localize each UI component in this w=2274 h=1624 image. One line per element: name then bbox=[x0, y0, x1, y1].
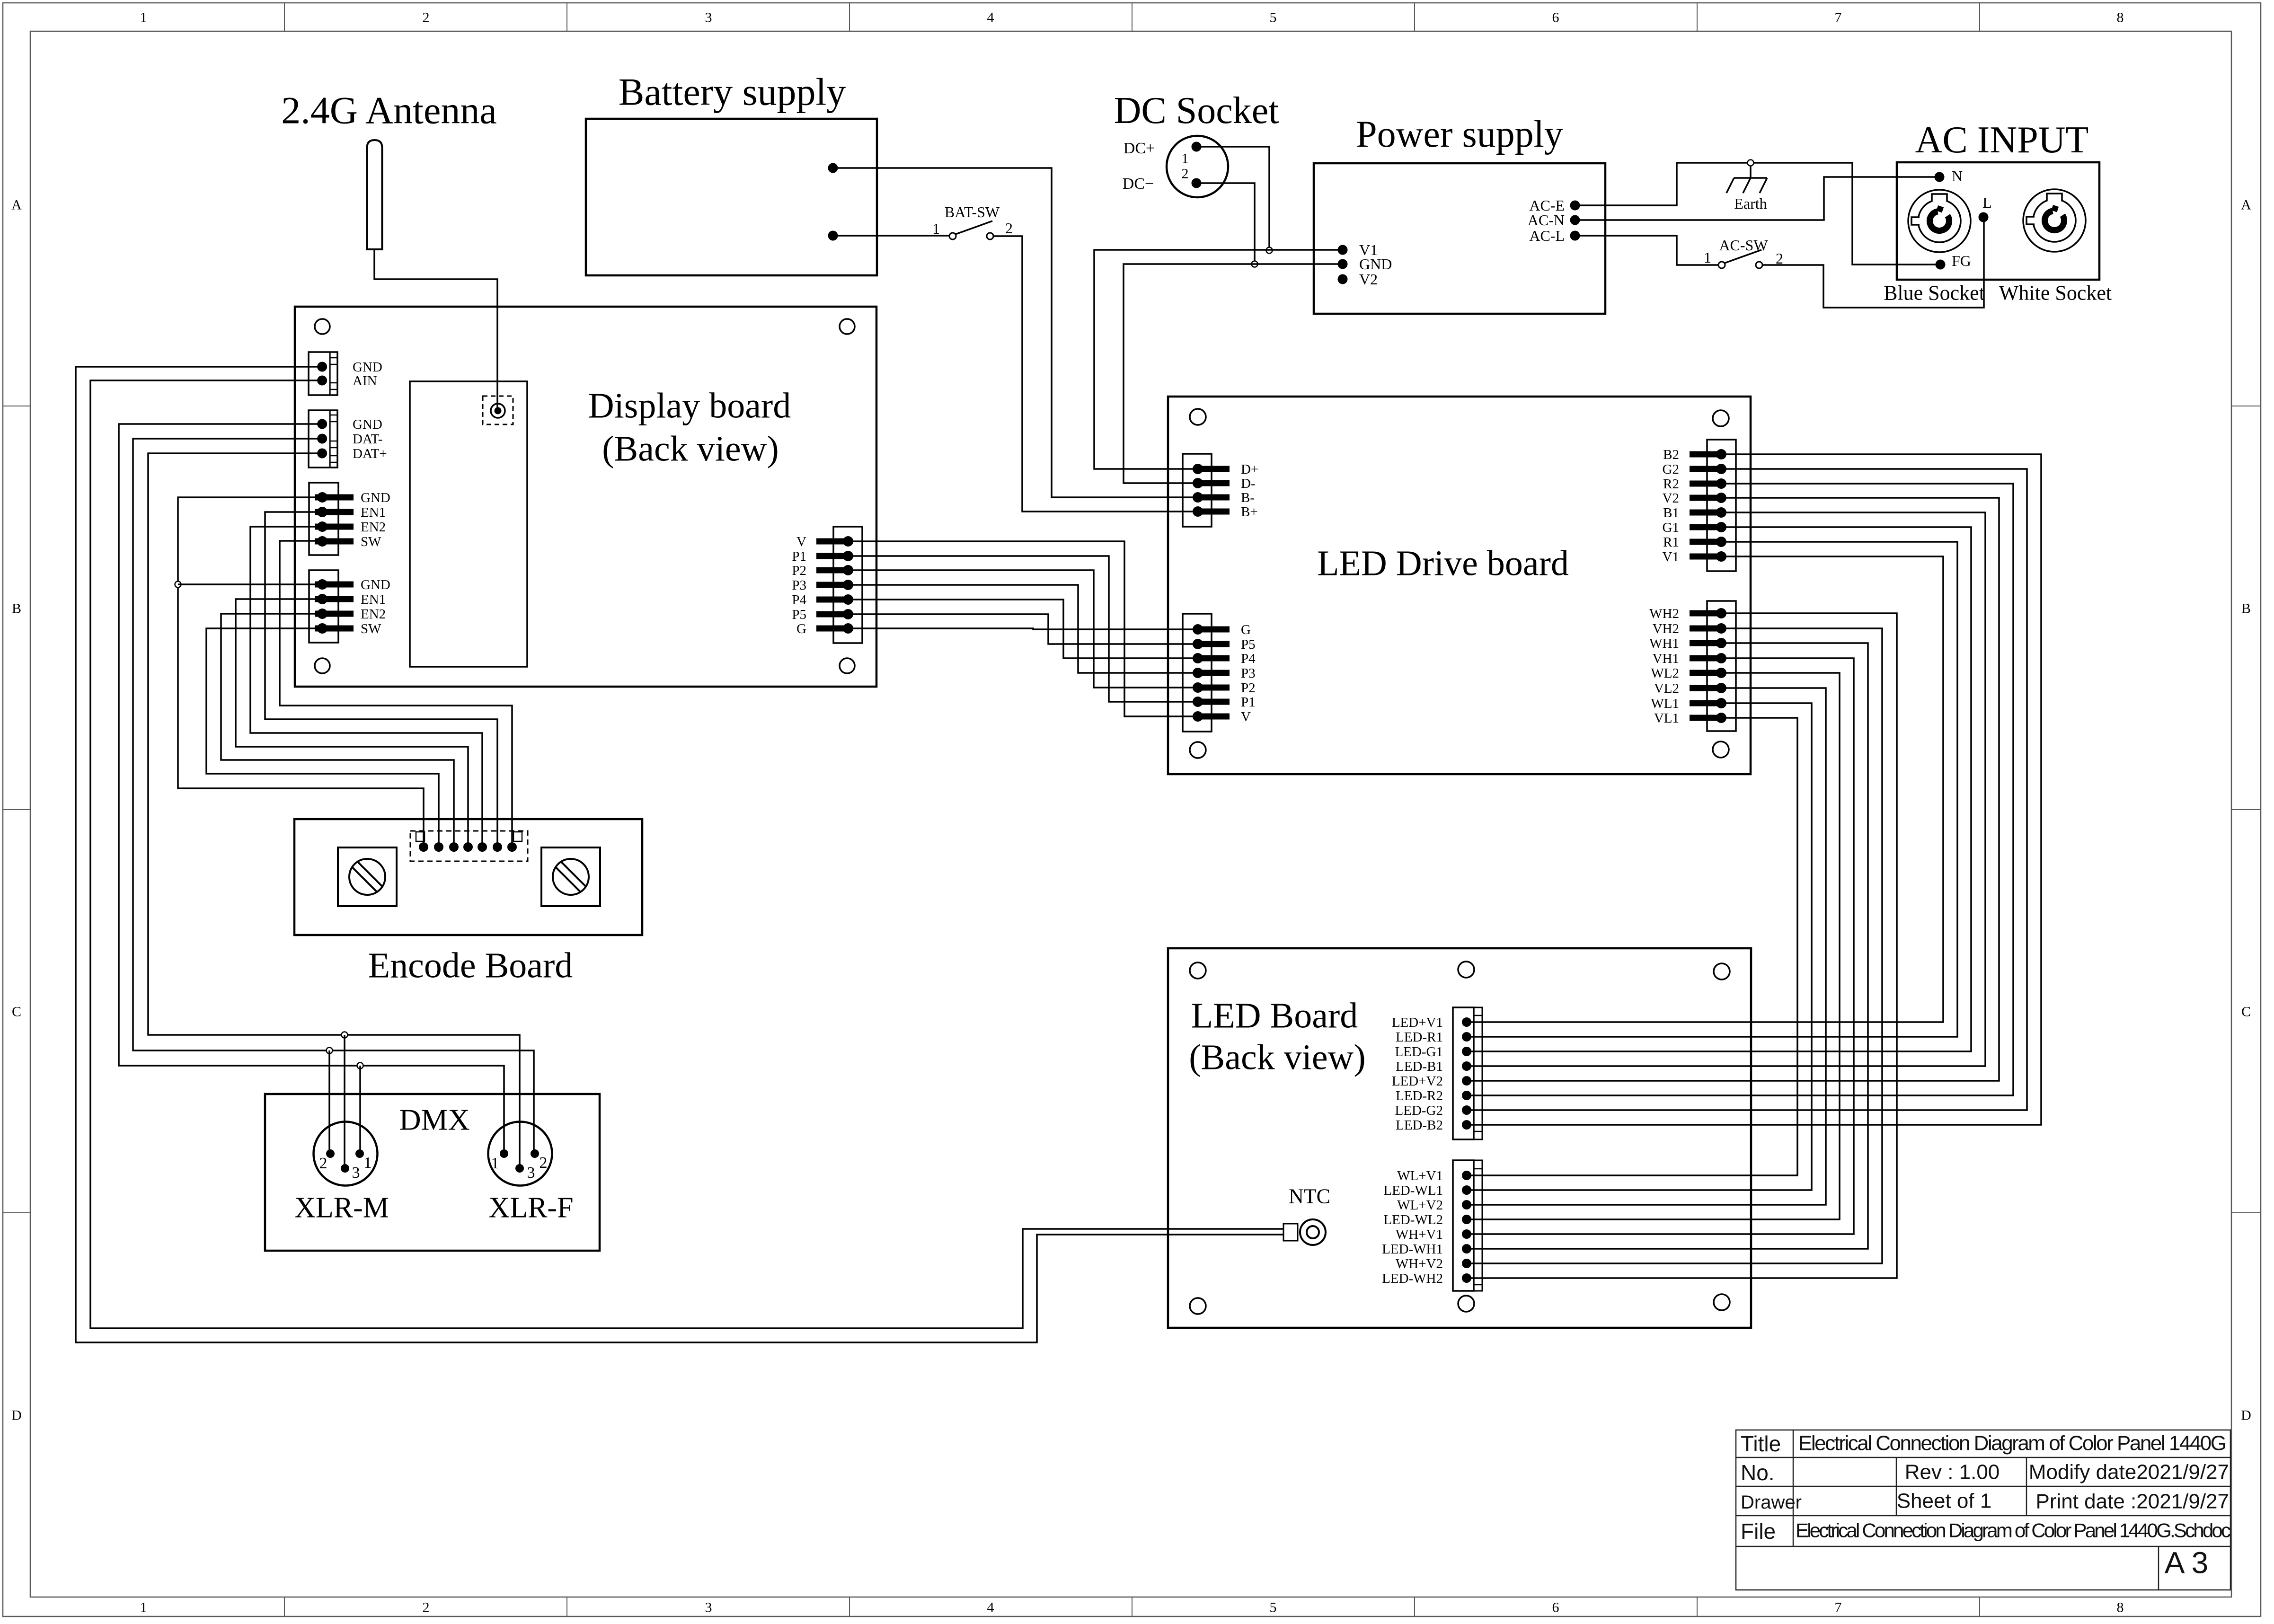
svg-text:DAT-: DAT- bbox=[353, 432, 382, 447]
antenna ANT1 bbox=[367, 140, 382, 249]
svg-text:Earth: Earth bbox=[1734, 195, 1767, 212]
svg-text:Display board: Display board bbox=[588, 386, 791, 426]
svg-text:6: 6 bbox=[1552, 1600, 1559, 1615]
svg-text:BAT-SW: BAT-SW bbox=[945, 203, 1000, 221]
power supply AC-N pin bbox=[1570, 215, 1580, 225]
svg-text:VH2: VH2 bbox=[1653, 621, 1679, 636]
svg-text:G: G bbox=[1241, 622, 1251, 637]
LED drive board outline bbox=[1168, 397, 1751, 774]
LED board connector JL2 pin LED-WL2 stub bbox=[1467, 1219, 1482, 1220]
LED drive hole top-left bbox=[1190, 409, 1206, 425]
svg-text:Title: Title bbox=[1741, 1431, 1781, 1456]
display connector J5 pin G bbox=[816, 623, 853, 634]
display connector J5 housing bbox=[833, 527, 862, 643]
LED drive hole bottom-right bbox=[1713, 741, 1729, 758]
AC-SW pin2 contact bbox=[1756, 262, 1762, 268]
svg-text:GND: GND bbox=[361, 490, 390, 505]
svg-text:LED-B2: LED-B2 bbox=[1396, 1118, 1443, 1133]
wire display G to drive G bbox=[848, 628, 1195, 629]
LED drive connector JD3 pin B2 bbox=[1690, 449, 1726, 459]
svg-text:GND: GND bbox=[1359, 256, 1392, 273]
svg-text:LED-WH2: LED-WH2 bbox=[1382, 1271, 1443, 1286]
wire display EN1(J4) to encode pin4 bbox=[236, 599, 468, 843]
LED board connector JL2 pin LED-WH2 stub bbox=[1467, 1278, 1482, 1279]
LED board connector JL1 pin LED-G1 stub bbox=[1467, 1051, 1482, 1052]
LED drive connector JD3 pin R1 bbox=[1690, 537, 1726, 547]
LED board hole bottom-left bbox=[1190, 1298, 1206, 1314]
svg-text:LED Drive board: LED Drive board bbox=[1317, 544, 1569, 583]
display connector J4 pin EN1 bbox=[315, 594, 354, 604]
svg-text:2: 2 bbox=[1182, 166, 1189, 182]
wire DC- to GND net bbox=[1200, 183, 1255, 261]
LED drive connector JD2 pin P4 bbox=[1193, 653, 1230, 663]
junction DMX pin2 rail / XLR-M pin2 bbox=[327, 1048, 333, 1054]
svg-text:P1: P1 bbox=[792, 549, 806, 564]
display connector J1 bbox=[309, 352, 337, 395]
svg-text:6: 6 bbox=[1552, 10, 1559, 26]
svg-text:P1: P1 bbox=[1241, 695, 1256, 710]
LED board connector JL2 pin LED-WL1 bbox=[1462, 1185, 1471, 1195]
wire display EN2(J4) to encode pin3 bbox=[221, 614, 454, 843]
LED drive connector JD4 housing bbox=[1707, 601, 1736, 731]
DC socket pin 1 bbox=[1192, 142, 1202, 152]
display board outline bbox=[295, 307, 876, 687]
svg-text:V2: V2 bbox=[1359, 271, 1378, 288]
svg-text:D: D bbox=[2241, 1408, 2251, 1423]
svg-text:Drawer: Drawer bbox=[1741, 1492, 1802, 1513]
svg-text:4: 4 bbox=[987, 1600, 994, 1615]
wire BAT-SW pin2 to LED drive B+ bbox=[993, 236, 1195, 512]
wire AC-L to AC-SW pin1 bbox=[1575, 236, 1718, 265]
display connector J4 pin GND bbox=[315, 579, 354, 590]
svg-text:B1: B1 bbox=[1663, 505, 1679, 521]
svg-text:A: A bbox=[11, 197, 22, 213]
svg-text:LED+V1: LED+V1 bbox=[1392, 1015, 1443, 1030]
LED drive hole bottom-left bbox=[1190, 742, 1206, 758]
antenna connector on display board bbox=[483, 396, 513, 424]
svg-text:FG: FG bbox=[1952, 252, 1971, 269]
LED board connector JL1 pin LED-R2 bbox=[1462, 1091, 1471, 1100]
junction DMX pin1 rail / XLR-M pin1 bbox=[357, 1063, 363, 1069]
LED drive connector JD3 housing bbox=[1707, 440, 1736, 571]
LED board connector JL1 pin LED-R2 stub bbox=[1467, 1095, 1482, 1096]
encode connector pin 2 bbox=[434, 842, 443, 852]
svg-text:P3: P3 bbox=[1241, 666, 1256, 681]
svg-text:WH2: WH2 bbox=[1649, 606, 1679, 621]
svg-text:LED-B1: LED-B1 bbox=[1396, 1059, 1443, 1074]
svg-text:N: N bbox=[1952, 168, 1963, 185]
wire display V to drive V bbox=[848, 541, 1195, 716]
LED board hole top-middle bbox=[1458, 962, 1474, 978]
LED drive connector JD1 pin D- bbox=[1193, 478, 1230, 488]
svg-text:1: 1 bbox=[1182, 151, 1189, 167]
LED drive connector JD4 pin WH1 bbox=[1690, 638, 1726, 648]
LED board connector JL2 pin LED-WH1 stub bbox=[1467, 1248, 1482, 1250]
svg-text:2: 2 bbox=[423, 10, 430, 26]
svg-text:WH1: WH1 bbox=[1649, 636, 1679, 651]
XLR-F connector body bbox=[488, 1122, 552, 1186]
battery pin - bbox=[828, 231, 838, 241]
LED board connector JL1 pin LED+V1 stub bbox=[1467, 1022, 1482, 1023]
LED drive connector JD2 housing bbox=[1183, 614, 1212, 732]
XLR-M pin 3 bbox=[341, 1164, 349, 1173]
svg-text:LED-WL2: LED-WL2 bbox=[1383, 1212, 1443, 1227]
LED board connector JL2 housing bbox=[1453, 1160, 1482, 1291]
LED drive connector JD2 pin P3 bbox=[1193, 668, 1230, 678]
display connector J5 pin P1 bbox=[816, 551, 853, 561]
svg-text:3: 3 bbox=[705, 10, 712, 26]
LED drive connector JD1 pin B- bbox=[1193, 492, 1230, 503]
wire display P2 to drive P2 bbox=[848, 570, 1195, 688]
LED board connector JL1 pin LED+V2 bbox=[1462, 1076, 1471, 1086]
svg-text:Rev : 1.00: Rev : 1.00 bbox=[1905, 1460, 2000, 1483]
svg-text:AIN: AIN bbox=[353, 373, 377, 388]
svg-text:R2: R2 bbox=[1663, 477, 1679, 492]
svg-text:P4: P4 bbox=[1241, 651, 1256, 666]
LED drive connector JD2 pin P2 bbox=[1193, 682, 1230, 693]
wire drive VL2 to LED board bbox=[1469, 688, 1826, 1205]
power supply AC-L pin bbox=[1570, 231, 1580, 241]
svg-text:1: 1 bbox=[491, 1155, 499, 1172]
junction GND(J3)/GND(J4) bbox=[175, 582, 181, 588]
svg-text:B-: B- bbox=[1241, 490, 1255, 505]
blue socket N pin bbox=[1935, 172, 1945, 182]
svg-text:B2: B2 bbox=[1663, 447, 1679, 462]
LED board hole top-right bbox=[1714, 963, 1730, 980]
svg-text:DC−: DC− bbox=[1123, 175, 1154, 193]
svg-text:LED+V2: LED+V2 bbox=[1392, 1074, 1443, 1089]
LED board connector JL2 pin WH+V1 stub bbox=[1467, 1234, 1482, 1235]
display connector J2 pin DAT+ bbox=[317, 449, 327, 459]
svg-text:V: V bbox=[796, 534, 806, 549]
svg-text:A 3: A 3 bbox=[2165, 1545, 2209, 1580]
LED board connector JL2 pin WH+V1 bbox=[1462, 1229, 1471, 1239]
svg-text:AC-SW: AC-SW bbox=[1719, 237, 1768, 254]
svg-text:C: C bbox=[2241, 1004, 2251, 1020]
wire display GND(J3) to encode pin1 bbox=[178, 497, 424, 843]
junction DMX pin3 rail / XLR-M pin3 bbox=[342, 1032, 348, 1038]
svg-text:EN1: EN1 bbox=[361, 505, 386, 520]
wire drive R1 to LED board bbox=[1469, 542, 1957, 1037]
LED board connector JL1 pin LED-G2 stub bbox=[1467, 1110, 1482, 1111]
svg-text:2: 2 bbox=[319, 1155, 327, 1172]
svg-text:D: D bbox=[11, 1408, 22, 1423]
wire display SW(J3) to encode pin7 bbox=[280, 541, 512, 843]
LED board outline bbox=[1168, 948, 1751, 1328]
svg-text:LED-G2: LED-G2 bbox=[1395, 1103, 1443, 1118]
svg-text:D+: D+ bbox=[1241, 462, 1258, 477]
DC socket pin 2 bbox=[1192, 178, 1202, 188]
svg-text:P5: P5 bbox=[792, 607, 806, 622]
wire V1 to LED drive D+ bbox=[1094, 250, 1343, 469]
display connector J5 pin P4 bbox=[816, 594, 853, 605]
LED board connector JL2 pin WL+V2 stub bbox=[1467, 1204, 1482, 1206]
svg-text:B: B bbox=[12, 601, 21, 617]
svg-text:XLR-F: XLR-F bbox=[488, 1192, 573, 1224]
svg-text:C: C bbox=[12, 1004, 21, 1020]
title block grid bbox=[1736, 1430, 2230, 1590]
XLR-M pin 1 bbox=[355, 1149, 364, 1158]
XLR-F pin 1 bbox=[500, 1149, 508, 1158]
svg-text:VL2: VL2 bbox=[1654, 681, 1679, 696]
LED drive connector JD4 pin WL2 bbox=[1690, 668, 1726, 678]
LED board connector JL1 housing bbox=[1453, 1007, 1482, 1139]
wire antenna to display board antenna connector bbox=[374, 249, 497, 407]
LED board connector JL2 pin LED-WL1 stub bbox=[1467, 1190, 1482, 1191]
NTC ring terminal bbox=[1283, 1219, 1326, 1245]
encode board outline bbox=[294, 819, 642, 935]
LED drive connector JD3 pin R2 bbox=[1690, 478, 1726, 489]
svg-text:DC+: DC+ bbox=[1124, 140, 1155, 157]
DMX box outline bbox=[265, 1094, 600, 1251]
svg-text:(Back view): (Back view) bbox=[1189, 1038, 1366, 1077]
svg-text:WL2: WL2 bbox=[1651, 666, 1679, 681]
LED board connector JL1 pin LED-B1 stub bbox=[1467, 1066, 1482, 1067]
svg-text:Blue Socket: Blue Socket bbox=[1884, 281, 1985, 304]
svg-text:8: 8 bbox=[2117, 10, 2124, 26]
svg-text:Battery supply: Battery supply bbox=[619, 71, 846, 114]
svg-text:P2: P2 bbox=[1241, 680, 1256, 696]
power supply GND pin bbox=[1338, 259, 1348, 269]
LED drive connector JD3 pin V1 bbox=[1690, 551, 1726, 562]
svg-text:5: 5 bbox=[1270, 10, 1277, 26]
LED drive connector JD2 pin P5 bbox=[1193, 639, 1230, 649]
LED drive connector JD4 pin VL2 bbox=[1690, 683, 1726, 693]
encode board screw terminal left bbox=[338, 847, 397, 906]
LED board connector JL1 pin LED-B2 bbox=[1462, 1120, 1471, 1130]
svg-text:WL+V2: WL+V2 bbox=[1397, 1198, 1443, 1213]
display connector J2 pin DAT- bbox=[317, 434, 327, 444]
wire display DAT-(J2) to DMX pin2 rail bbox=[133, 439, 534, 1150]
wire display DAT+(J2) to DMX pin3 rail bbox=[148, 453, 520, 1165]
LED drive connector JD2 pin V bbox=[1193, 711, 1230, 722]
display connector J3 pin GND bbox=[315, 492, 354, 503]
LED drive connector JD3 pin V2 bbox=[1690, 493, 1726, 503]
display connector J3 pin EN1 bbox=[315, 507, 354, 517]
LED drive connector JD4 pin VH2 bbox=[1690, 623, 1726, 634]
junction DC- / GND bbox=[1252, 261, 1258, 267]
power supply box bbox=[1314, 163, 1605, 314]
DC socket connector body bbox=[1167, 136, 1228, 197]
LED drive connector JD1 pin D+ bbox=[1193, 464, 1230, 474]
wire drive VL1 to LED board bbox=[1469, 718, 1797, 1175]
svg-text:2: 2 bbox=[423, 1600, 430, 1615]
svg-text:3: 3 bbox=[527, 1164, 535, 1182]
svg-text:7: 7 bbox=[1835, 10, 1842, 26]
LED board connector JL1 pin LED-B2 stub bbox=[1467, 1124, 1482, 1126]
AC-SW blade bbox=[1725, 250, 1761, 263]
wire DC+ to V1 net bbox=[1201, 147, 1269, 247]
LED board connector JL2 pin WL+V2 bbox=[1462, 1200, 1471, 1209]
LED board connector JL2 pin WL+V1 bbox=[1462, 1171, 1471, 1180]
svg-text:XLR-M: XLR-M bbox=[294, 1192, 389, 1224]
LED drive connector JD3 pin G1 bbox=[1690, 522, 1726, 532]
wire display P4 to drive P4 bbox=[848, 600, 1195, 658]
wire XLR-M pin1 drop bbox=[359, 1066, 361, 1150]
earth net junction bbox=[1748, 160, 1754, 166]
LED board connector JL2 pin LED-WH2 bbox=[1462, 1273, 1471, 1283]
svg-text:V: V bbox=[1241, 709, 1251, 724]
svg-text:G: G bbox=[796, 621, 806, 636]
wire display EN2(J3) to encode pin5 bbox=[250, 527, 482, 843]
svg-text:1: 1 bbox=[364, 1154, 372, 1172]
display board hole top-left bbox=[315, 319, 330, 334]
LED board connector JL1 pin LED+V2 stub bbox=[1467, 1080, 1482, 1082]
svg-text:Sheet of 1: Sheet of 1 bbox=[1897, 1489, 1992, 1512]
wire drive V2 to LED board bbox=[1469, 498, 1999, 1081]
LED board connector JL1 pin LED-B1 bbox=[1462, 1061, 1471, 1071]
wire AC-SW pin2 to blue socket L bbox=[1762, 221, 1984, 308]
svg-text:Modify date2021/9/27: Modify date2021/9/27 bbox=[2029, 1460, 2229, 1483]
wire display AIN(J1) to NTC upper lead bbox=[90, 380, 1284, 1328]
svg-text:R1: R1 bbox=[1663, 535, 1679, 550]
svg-text:1: 1 bbox=[140, 1600, 147, 1615]
svg-text:DC Socket: DC Socket bbox=[1114, 90, 1279, 132]
display connector J4 housing bbox=[309, 570, 338, 643]
display connector J5 pin P2 bbox=[816, 565, 853, 575]
svg-text:AC INPUT: AC INPUT bbox=[1915, 119, 2089, 161]
svg-text:Electrical Connection Diagram: Electrical Connection Diagram of Color P… bbox=[1796, 1519, 2231, 1542]
wire drive R2 to LED board bbox=[1469, 484, 2013, 1095]
encode board screw terminal right bbox=[541, 847, 600, 906]
LED board hole bottom-right bbox=[1714, 1294, 1730, 1310]
power supply V1 pin bbox=[1338, 245, 1348, 255]
XLR-M connector body bbox=[314, 1122, 378, 1186]
wire drive VH2 to LED board bbox=[1469, 628, 1882, 1263]
wire AC-E to Earth and FG bbox=[1575, 163, 1936, 265]
wire XLR-M pin3 drop bbox=[344, 1035, 345, 1165]
svg-text:AC-L: AC-L bbox=[1529, 227, 1565, 244]
wire display GND(J1) to NTC lower lead bbox=[76, 367, 1284, 1342]
wire drive WL1 to LED board bbox=[1469, 703, 1812, 1190]
svg-text:DMX: DMX bbox=[399, 1103, 469, 1136]
svg-text:7: 7 bbox=[1835, 1600, 1842, 1615]
svg-text:5: 5 bbox=[1270, 1600, 1277, 1615]
display connector J2 bbox=[309, 410, 337, 468]
svg-text:V1: V1 bbox=[1663, 549, 1679, 565]
encode connector pin 6 bbox=[493, 842, 502, 852]
AC input box bbox=[1897, 162, 2099, 280]
LED drive hole top-right bbox=[1713, 410, 1729, 426]
svg-text:8: 8 bbox=[2117, 1600, 2124, 1615]
svg-text:A: A bbox=[2241, 197, 2251, 213]
svg-text:SW: SW bbox=[361, 621, 381, 636]
svg-text:P3: P3 bbox=[792, 578, 806, 593]
wire display GND(J2) to DMX pin1 rail bbox=[119, 424, 504, 1154]
svg-text:2.4G Antenna: 2.4G Antenna bbox=[281, 89, 496, 132]
display connector J2 pin GND bbox=[317, 419, 327, 429]
power supply AC-E pin bbox=[1570, 201, 1580, 211]
wire XLR-M pin2 drop bbox=[328, 1050, 330, 1150]
wire drive B2 to LED board bbox=[1469, 454, 2041, 1125]
display board hole top-right bbox=[840, 319, 855, 334]
ground symbol Earth bbox=[1726, 166, 1767, 193]
display board daughter module bbox=[410, 381, 527, 667]
svg-text:Print date :2021/9/27: Print date :2021/9/27 bbox=[2035, 1490, 2229, 1513]
LED board connector JL2 pin WH+V2 stub bbox=[1467, 1263, 1482, 1264]
wire display SW(J4) to encode pin2 bbox=[206, 628, 439, 843]
svg-text:EN2: EN2 bbox=[361, 607, 386, 622]
LED drive connector JD4 pin VH1 bbox=[1690, 653, 1726, 663]
LED drive connector JD4 pin VL1 bbox=[1690, 713, 1726, 723]
wire GND to LED drive D- bbox=[1124, 264, 1343, 483]
LED drive connector JD3 pin B1 bbox=[1690, 507, 1726, 518]
svg-text:WH+V2: WH+V2 bbox=[1396, 1256, 1443, 1271]
svg-text:Power supply: Power supply bbox=[1356, 114, 1563, 155]
wire display P1 to drive P1 bbox=[848, 556, 1195, 702]
svg-text:LED-WL1: LED-WL1 bbox=[1383, 1183, 1443, 1198]
encode connector pin 7 bbox=[507, 842, 517, 852]
svg-text:3: 3 bbox=[352, 1164, 360, 1182]
svg-text:VH1: VH1 bbox=[1653, 651, 1679, 666]
power supply V2 pin bbox=[1338, 274, 1348, 284]
svg-text:LED-WH1: LED-WH1 bbox=[1382, 1242, 1443, 1257]
wire display P3 to drive P3 bbox=[848, 585, 1195, 673]
display connector J3 pin SW bbox=[315, 536, 354, 547]
svg-text:Encode Board: Encode Board bbox=[368, 946, 573, 986]
svg-text:B: B bbox=[2241, 601, 2251, 617]
svg-text:LED-G1: LED-G1 bbox=[1395, 1044, 1443, 1059]
AC-SW pin1 contact bbox=[1718, 262, 1725, 268]
wire display P5 to drive P5 bbox=[848, 614, 1195, 644]
BAT-SW blade bbox=[956, 221, 992, 234]
wire drive WH1 to LED board bbox=[1469, 643, 1868, 1249]
svg-text:GND: GND bbox=[361, 577, 390, 592]
svg-text:3: 3 bbox=[705, 1600, 712, 1615]
LED board connector JL2 pin LED-WH1 bbox=[1462, 1244, 1471, 1253]
encode connector pin 4 bbox=[463, 842, 473, 852]
svg-text:(Back view): (Back view) bbox=[602, 429, 779, 469]
svg-text:DAT+: DAT+ bbox=[353, 446, 387, 461]
svg-text:L: L bbox=[1982, 194, 1992, 211]
display board hole bottom-right bbox=[840, 658, 855, 673]
blue socket FG pin bbox=[1936, 260, 1946, 270]
svg-text:EN1: EN1 bbox=[361, 592, 386, 607]
svg-text:V2: V2 bbox=[1663, 491, 1679, 506]
white socket connector symbol bbox=[2023, 189, 2086, 252]
wire drive WH2 to LED board bbox=[1469, 613, 1897, 1278]
svg-text:2: 2 bbox=[1005, 220, 1013, 237]
LED board connector JL1 pin LED-R1 stub bbox=[1467, 1036, 1482, 1038]
blue socket connector symbol bbox=[1908, 190, 1971, 252]
svg-text:P4: P4 bbox=[792, 592, 806, 608]
wire drive V1 to LED board bbox=[1469, 556, 1943, 1022]
display connector J5 pin P5 bbox=[816, 609, 853, 619]
LED board connector JL1 pin LED+V1 bbox=[1462, 1017, 1471, 1027]
svg-text:VL1: VL1 bbox=[1654, 711, 1679, 726]
display board hole bottom-left bbox=[315, 658, 330, 673]
svg-text:EN2: EN2 bbox=[361, 520, 386, 535]
svg-text:1: 1 bbox=[140, 10, 147, 26]
svg-text:P2: P2 bbox=[792, 563, 806, 578]
LED drive connector JD3 pin G2 bbox=[1690, 464, 1726, 474]
XLR-M pin 2 bbox=[326, 1149, 335, 1158]
LED board hole bottom-middle bbox=[1458, 1296, 1474, 1312]
display connector J1 pin AIN bbox=[317, 376, 327, 386]
display connector J4 pin SW bbox=[315, 623, 354, 634]
LED board connector JL2 pin WH+V2 bbox=[1462, 1259, 1471, 1268]
svg-text:LED-R1: LED-R1 bbox=[1396, 1030, 1443, 1045]
svg-text:WL+V1: WL+V1 bbox=[1397, 1168, 1443, 1183]
svg-text:WH+V1: WH+V1 bbox=[1396, 1227, 1443, 1242]
svg-text:G2: G2 bbox=[1663, 462, 1679, 477]
display connector J5 pin P3 bbox=[816, 580, 853, 590]
BAT-SW pin2 contact bbox=[987, 233, 993, 239]
display connector J4 pin EN2 bbox=[315, 609, 354, 619]
wire display GND(J4) join bbox=[178, 583, 318, 585]
encode connector pin 1 bbox=[419, 842, 428, 852]
encode connector pin 3 bbox=[449, 842, 459, 852]
